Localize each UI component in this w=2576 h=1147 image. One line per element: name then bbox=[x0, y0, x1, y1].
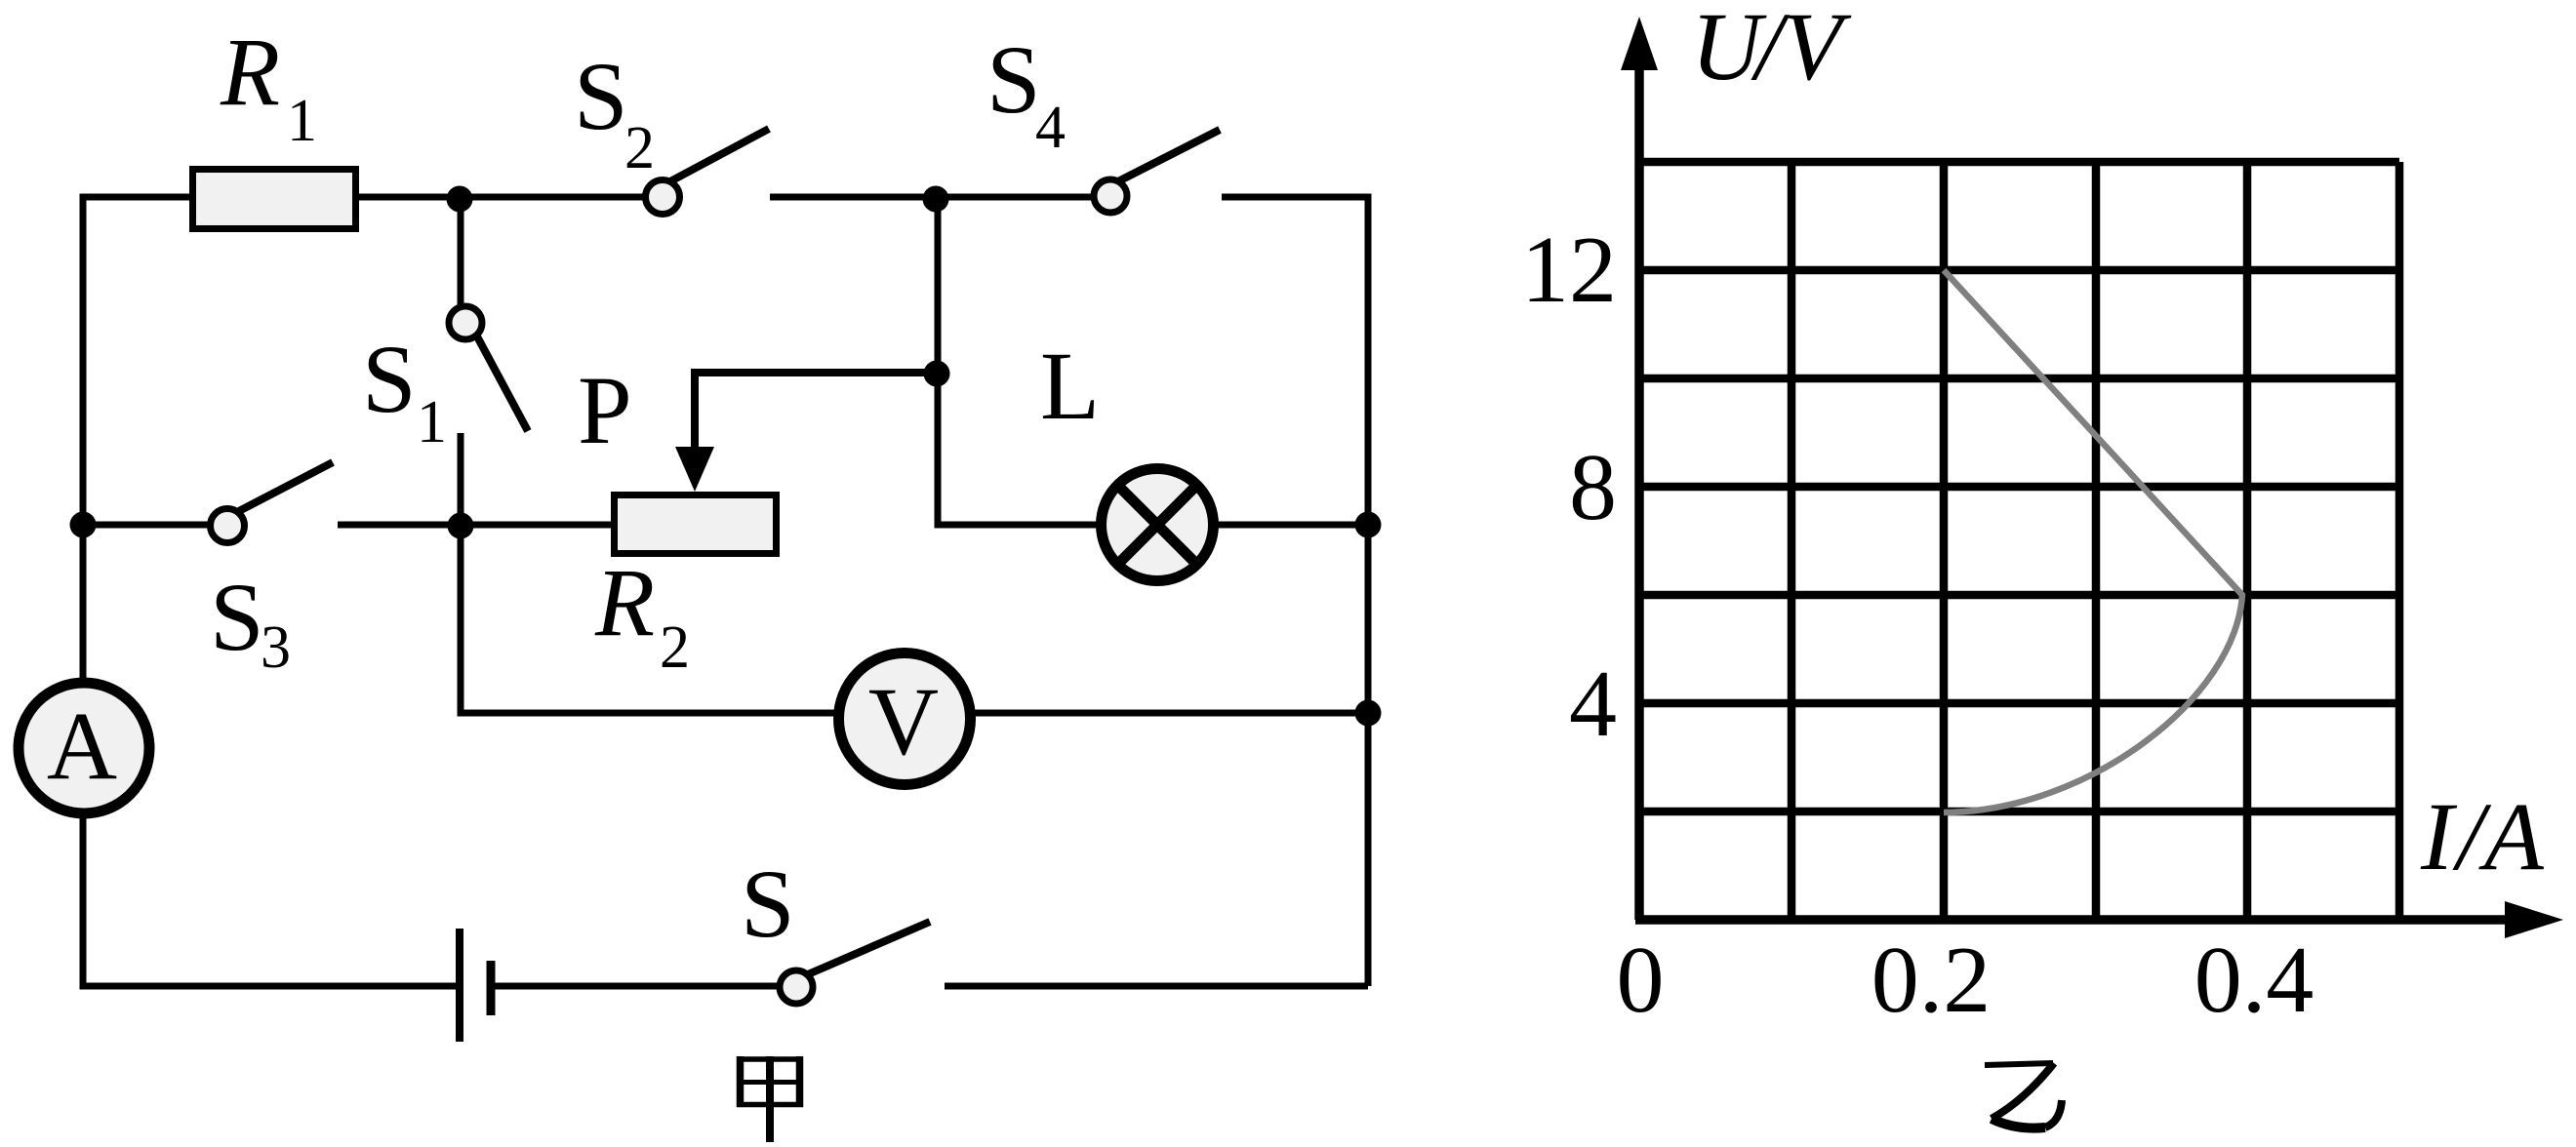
wire middle-left from rail to S3 bbox=[83, 522, 211, 529]
battery short plate bbox=[487, 961, 496, 1015]
svg-text:8: 8 bbox=[1569, 435, 1617, 540]
svg-text:2: 2 bbox=[660, 614, 690, 681]
switch S4 lever bbox=[1118, 130, 1220, 181]
node lamp-right bbox=[1355, 512, 1382, 538]
resistor R1 bbox=[193, 170, 356, 229]
switch S1 lever bbox=[477, 336, 528, 431]
svg-text:1: 1 bbox=[287, 88, 317, 154]
voltmeter V circle bbox=[839, 653, 971, 785]
wire battery to switch S bbox=[495, 983, 778, 990]
svg-text:2: 2 bbox=[624, 115, 655, 181]
switch S2 lever bbox=[670, 129, 769, 181]
node J1 bbox=[447, 186, 473, 213]
node J4 bbox=[70, 512, 97, 538]
y axis U/V bbox=[1634, 59, 1644, 920]
svg-text:12: 12 bbox=[1521, 218, 1617, 323]
svg-text:/V: /V bbox=[1751, 0, 1852, 100]
rheostat R2 body bbox=[615, 495, 777, 554]
wire left rail bbox=[80, 194, 87, 684]
wire S4 to top-right corner bbox=[1222, 194, 1368, 201]
svg-text:/A: /A bbox=[2452, 782, 2545, 890]
switch S3 lever bbox=[237, 462, 333, 512]
svg-text:S: S bbox=[574, 42, 628, 150]
switch S lever bbox=[808, 922, 930, 974]
caption Jia (drawn glyph) bbox=[737, 1056, 803, 1142]
svg-text:0: 0 bbox=[1617, 928, 1665, 1033]
rheostat slider wire P bbox=[695, 373, 937, 451]
curve lamp characteristic (gray) bbox=[1944, 270, 2242, 812]
lamp L circle bbox=[1102, 469, 1214, 581]
wire lamp to right rail bbox=[1213, 522, 1368, 529]
svg-text:P: P bbox=[578, 356, 632, 464]
node J5 bbox=[924, 361, 950, 387]
node J3 bbox=[448, 513, 474, 539]
svg-text:A: A bbox=[47, 692, 117, 800]
wire S3 to J3 to R2 bbox=[338, 522, 615, 529]
wire S1 lower stub to J3 bbox=[458, 433, 464, 527]
svg-text:S: S bbox=[741, 850, 795, 958]
rheostat slider arrowhead bbox=[675, 447, 714, 492]
wire R1 to J1 to S2 bbox=[355, 194, 644, 201]
wire J2 to S4 bbox=[936, 194, 1093, 201]
switch S pivot bbox=[780, 970, 813, 1004]
node J2 bbox=[923, 186, 949, 213]
svg-text:3: 3 bbox=[261, 614, 291, 681]
switch S3 pivot bbox=[211, 509, 245, 543]
graph grid bbox=[1639, 162, 2399, 920]
x axis I/A bbox=[1635, 915, 2513, 925]
svg-text:V: V bbox=[868, 667, 939, 775]
svg-text:S: S bbox=[986, 25, 1041, 134]
wire J3 down to voltmeter bbox=[461, 526, 840, 713]
switch S1 pivot bbox=[449, 306, 482, 339]
wire J2 down through J5 to lamp corner bbox=[938, 197, 1103, 525]
svg-text:S: S bbox=[362, 325, 417, 433]
x axis arrowhead bbox=[2505, 901, 2563, 938]
wire ammeter down to bottom-left corner and to battery bbox=[83, 813, 456, 986]
svg-text:0.2: 0.2 bbox=[1872, 928, 1992, 1033]
svg-text:1: 1 bbox=[417, 389, 447, 455]
lamp L cross bbox=[1117, 485, 1196, 564]
wire top-left horizontal bbox=[83, 194, 192, 201]
svg-text:S: S bbox=[210, 563, 264, 671]
y axis arrowhead bbox=[1621, 17, 1658, 70]
wire J1 down to S1 bbox=[458, 199, 464, 305]
svg-text:0.4: 0.4 bbox=[2194, 928, 2314, 1033]
wire S to bottom-right corner bbox=[945, 983, 1368, 990]
svg-text:I: I bbox=[2420, 782, 2458, 890]
wire S2 to J2 bbox=[770, 194, 936, 201]
wire right rail bbox=[1365, 194, 1372, 987]
svg-text:4: 4 bbox=[1035, 95, 1066, 161]
wire voltmeter to right rail bbox=[970, 710, 1368, 717]
svg-text:L: L bbox=[1040, 332, 1100, 440]
battery long plate bbox=[456, 929, 463, 1042]
caption Yi (drawn glyph) bbox=[1985, 1063, 2062, 1128]
ammeter A circle bbox=[19, 683, 149, 813]
switch S4 pivot bbox=[1094, 179, 1127, 213]
svg-text:R: R bbox=[220, 18, 280, 126]
svg-text:R: R bbox=[594, 548, 655, 656]
svg-text:4: 4 bbox=[1569, 652, 1617, 757]
switch S2 pivot bbox=[646, 180, 680, 215]
node V-right bbox=[1355, 700, 1382, 727]
